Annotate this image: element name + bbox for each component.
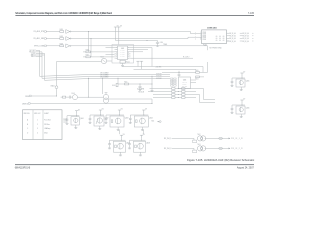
svg-text:Y403: Y403 [71,93,75,95]
svg-text:R421: R421 [195,79,198,81]
svg-text:R401: R401 [60,29,64,31]
svg-text:C406: C406 [160,42,163,44]
svg-text:RXIN: RXIN [203,39,206,41]
svg-text:B: B [27,124,28,126]
wire R404 to U402 [90,51,114,53]
resistor R403 [60,45,64,47]
buffer amp U404A [66,30,70,34]
shield box SH401 [112,45,134,64]
svg-text:Q405: Q405 [246,80,250,82]
svg-text:16_8_MHZ: 16_8_MHZ [137,88,144,90]
IC U403 body [179,77,191,89]
wire mid horizontal B [134,68,197,70]
svg-text:00: 00 [216,38,218,40]
svg-text:RX_IF_00: RX_IF_00 [243,41,249,43]
wire synth row 1 [153,88,172,90]
wire riser x102 [102,78,104,94]
capacitor C420 [178,71,180,75]
svg-text:RX_IF_1_R: RX_IF_1_R [231,138,243,140]
svg-text:RX_INJ_2: RX_INJ_2 [164,148,171,150]
transformer T401 [103,94,108,99]
resistor R421 [196,76,200,78]
svg-text:FL402: FL402 [126,62,130,64]
svg-text:RXIN: RXIN [203,34,206,36]
wire supply V401 corner [116,30,148,41]
svg-text:RX_FRONT_END: RX_FRONT_END [210,47,223,49]
svg-text:RXIN: RXIN [203,32,206,34]
svg-text:T403: T403 [197,144,200,146]
transistor Q402 cell [99,110,102,113]
svg-text:CR401: CR401 [50,85,55,87]
table column line 1 [32,110,34,140]
wire bus riser C [36,53,112,80]
svg-text:GRID LOC: GRID LOC [34,113,41,115]
svg-text:RX_IF_00: RX_IF_00 [229,36,235,38]
svg-text:5R 16.8MHZ: 5R 16.8MHZ [100,77,108,79]
svg-text:Y402: Y402 [151,121,154,123]
svg-text:Figure 7-105. HUD4022A UHF (R: Figure 7-105. HUD4022A UHF (R2) Receiver… [187,158,255,162]
svg-text:RSSI: RSSI [25,96,29,98]
wire bus line1 to synth [112,73,170,75]
table frame [23,110,63,140]
resistor R402 [60,38,64,40]
svg-text:U402: U402 [121,48,124,50]
svg-text:R403: R403 [60,43,64,45]
transistor Q405 cell [240,73,243,76]
wire bus riser A [36,50,112,76]
wire synth row 3 [153,94,172,96]
svg-text:R402: R402 [60,36,64,38]
ground under FL402 [122,63,124,65]
wire branch down x118 [117,78,119,83]
wire U403 right pin2 [191,82,197,84]
wire bus line2 to synth [112,75,170,77]
wire U403 right pin1 [191,79,197,81]
svg-text:SYN 3V: SYN 3V [156,76,161,78]
wire J401 out [227,40,230,42]
wire mid horizontal A [123,66,197,68]
wire DEMOD [30,103,152,105]
wire R411 row [118,83,125,85]
wire row3 out [71,45,208,47]
svg-text:RX_IF_00: RX_IF_00 [229,38,235,40]
svg-text:RXIN: RXIN [203,35,206,37]
svg-text:NOTE: NOTE [63,118,67,120]
svg-text:Q404: Q404 [149,117,153,119]
wire dropper from row1 [88,32,90,52]
resistor R401 [60,31,64,33]
capacitor C412 [139,84,141,86]
connector J401 box [202,30,227,44]
svg-text:RX_IF_2_R: RX_IF_2_R [231,148,243,150]
svg-text:SYN 3V: SYN 3V [156,78,161,80]
svg-text:Q408: Q408 [146,143,150,145]
svg-text:R410: R410 [112,85,115,87]
wire oscillator out [78,96,104,98]
svg-text:RX_INJ_1: RX_INJ_1 [164,138,171,140]
wire U402 out3 [131,51,144,53]
svg-text:C: C [27,128,28,130]
ground under C406 [156,45,159,48]
svg-text:00: 00 [216,36,218,38]
svg-text:+5V_RX: +5V_RX [156,67,162,69]
svg-text:SPKR_COMN: SPKR_COMN [34,46,45,48]
wire U402 out2 [131,49,149,51]
table column line 2 [42,110,44,140]
svg-text:00: 00 [219,40,221,42]
wire R405 to U402 [90,56,114,58]
wire cap feed [147,40,158,42]
resistor R405 [86,56,90,58]
svg-text:00: 00 [216,40,218,42]
filter FL402 [120,60,125,63]
wire row1 to connector J401 [71,32,202,34]
resistor R410 [116,84,118,87]
svg-text:00: 00 [219,36,221,38]
svg-text:CONN J401: CONN J401 [207,27,217,30]
wire stub TRB_B [36,56,42,58]
svg-text:FL401: FL401 [203,45,207,47]
oscillator Y403 [73,95,78,100]
svg-text:5R 16.8MHZ: 5R 16.8MHZ [100,73,108,75]
wire drop to Q407 [119,130,121,134]
wire horiz to crystal [57,61,102,63]
transistor Q407 cell [120,135,123,138]
svg-text:RX_IF_00: RX_IF_00 [243,33,249,35]
wire R405 stub [83,56,86,58]
IC U402 body [118,46,128,60]
svg-text:RXIN: RXIN [203,37,206,39]
supply V401 5V [114,27,117,30]
svg-text:7-105: 7-105 [248,12,255,15]
svg-text:00: 00 [223,36,225,38]
wire RSSI [31,95,56,97]
footer rule [15,163,254,166]
svg-text:00: 00 [219,38,221,40]
supply V402 3V [117,27,120,30]
wire drop to Q408 [143,130,145,134]
wire R404 stub [83,51,86,53]
wire corner to synth [196,67,203,73]
buffer amp U404C [66,44,70,48]
transistor Q406 cell [240,100,243,103]
svg-text:R404: R404 [86,49,89,51]
svg-text:RX_IF_00: RX_IF_00 [243,38,249,40]
wire riser x152 [151,76,153,90]
wire U402 out4 [131,57,194,59]
svg-text:Mixer: Mixer [44,133,48,135]
crystal Y401 [101,58,106,63]
transistor Q404 cell [142,110,145,113]
J401 right wires [227,32,230,34]
resistor R404 [86,51,90,53]
svg-text:D: D [27,133,28,135]
wire synth row 4 [153,97,172,99]
svg-text:SHEET: SHEET [44,113,49,115]
wire synth row 2 [153,91,172,93]
svg-text:REF DES: REF DES [24,113,30,115]
svg-text:MOD_IN: MOD_IN [139,91,145,93]
svg-text:TRB_B: TRB_B [31,56,36,58]
wire riser x88 [88,78,90,97]
svg-text:R411: R411 [124,81,127,83]
header rule [15,14,254,17]
svg-text:00: 00 [223,40,225,42]
wire RX_AUD_RTN input [47,31,60,33]
wire stub TRB_A [36,54,45,56]
wire R421 out [199,76,204,78]
svg-text:SYN 3V: SYN 3V [156,73,161,75]
wire R420 out [199,71,207,73]
wire bus riser B [36,52,112,78]
wire diode branch vertical [56,62,58,85]
svg-text:T402: T402 [197,134,200,136]
wire DEMOD riser [151,99,153,104]
svg-text:IF_OUT 2: IF_OUT 2 [183,57,189,59]
capacitor C406 [157,41,159,43]
svg-text:5R 16.8MHZ: 5R 16.8MHZ [100,75,108,77]
svg-text:RX_IF_00: RX_IF_00 [229,33,235,35]
svg-text:August 24, 2007: August 24, 2007 [237,167,255,170]
wire T401 out [109,98,152,100]
transistor Q403 cell [118,110,121,113]
svg-text:00: 00 [223,38,225,40]
svg-text:Q403: Q403 [125,117,129,119]
transistor Q408 cell [140,135,143,138]
wire riser R420 [207,62,209,72]
U402 right pins [128,47,131,49]
wire SPKR_COMN input [47,45,60,47]
wire synth top row [162,71,196,73]
svg-text:R420: R420 [195,70,198,72]
wire U402 out1 [131,48,153,67]
svg-text:6864110R01-B: 6864110R01-B [15,168,31,170]
wire corner synth out A [196,89,215,100]
svg-text:Schematics, Component Location: Schematics, Component Location Diagrams,… [15,11,112,15]
svg-text:DEMOD: DEMOD [22,103,29,105]
inductor L401 [63,96,66,98]
svg-text:SYNTH: SYNTH [182,84,186,86]
resistor R420 [196,72,200,74]
wire dropper from row2 [90,39,92,57]
wire row2 to connector J401 [71,37,202,38]
wire supply V402 down [118,30,120,45]
transistor Q401 cell [75,111,78,114]
svg-text:RX_IF_00: RX_IF_00 [243,36,249,38]
wire bus line3 to synth [112,77,170,79]
supply V403 [136,61,139,64]
wire corner synth out B [196,95,215,103]
svg-text:RX_IF_00: RX_IF_00 [229,41,235,43]
svg-text:R405: R405 [86,54,89,56]
supply V404 [140,61,143,64]
svg-text:Q401: Q401 [80,118,84,120]
svg-text:U403: U403 [183,80,187,82]
pin array U403 [171,78,173,80]
svg-text:Q406: Q406 [246,107,250,109]
wire stub J401 bottom [207,46,209,50]
capacitor C430 [66,96,70,98]
buffer amp U404B [66,37,70,41]
resistor R411 [125,83,129,85]
svg-text:TP401: TP401 [163,44,167,46]
U402 left pins [115,47,118,49]
wire RX_AUD_SND input [47,38,60,40]
